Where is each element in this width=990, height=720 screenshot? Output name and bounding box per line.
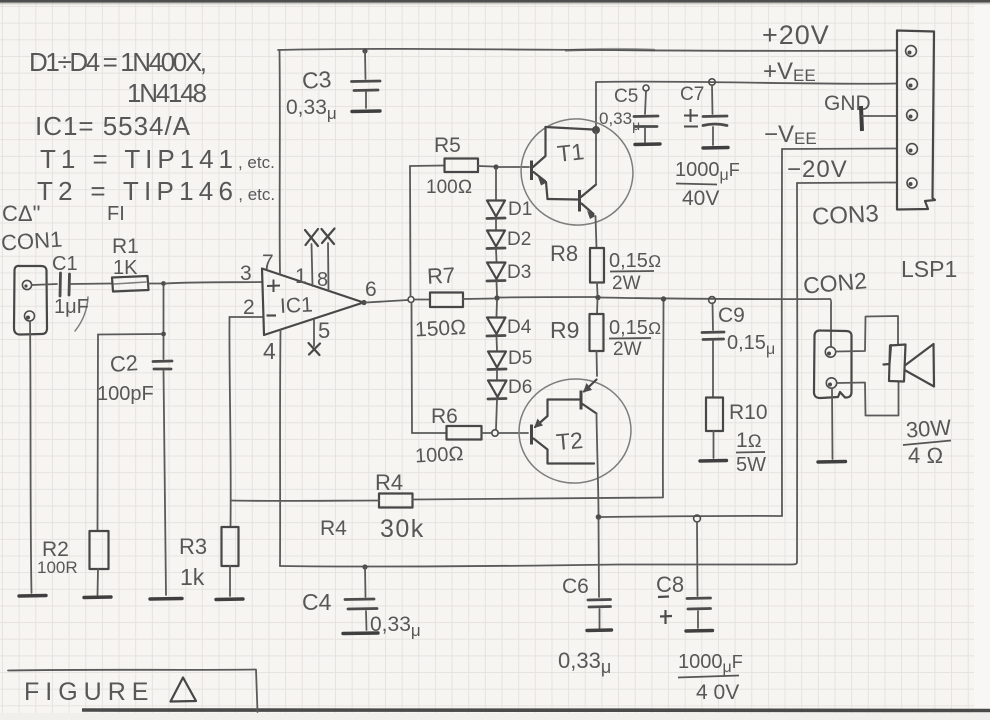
transistor T1 (darlington) circle (514, 112, 640, 233)
capacitor C6 (587, 519, 612, 631)
wire: T1 Q1 collector to node (546, 127, 594, 130)
wire: bias column vertical lower (to R6) (411, 303, 414, 434)
wire: T2 collector vertical (597, 414, 599, 516)
svg-text:1: 1 (295, 265, 307, 288)
capacitor C9 (702, 303, 724, 397)
node: T1 collector node blob (592, 126, 600, 134)
resistor R1 (112, 276, 149, 292)
wire: feedback vertical from output node (662, 301, 665, 498)
wire: CON2 pin1 to speaker top (836, 316, 898, 352)
wire: -20V bottom rail (280, 562, 797, 567)
svg-text:R8: R8 (550, 241, 578, 266)
svg-text:C3: C3 (301, 66, 332, 94)
pin 5 stub with X (309, 320, 321, 355)
diode D6 (488, 381, 507, 430)
svg-text:2: 2 (243, 296, 255, 319)
resistor R3 (222, 527, 239, 596)
svg-text:FIGURE: FIGURE (24, 678, 154, 706)
pin 7 wire to +20V (279, 50, 282, 274)
svg-text:R4: R4 (320, 517, 347, 540)
ground (R10) (700, 459, 727, 463)
wire: +VEE rail (596, 82, 897, 84)
pin 4 wire to -20V rail (279, 330, 282, 566)
svg-text:4 Ω: 4 Ω (908, 443, 943, 468)
resistor R8 (590, 248, 604, 295)
svg-text:30k: 30k (380, 515, 425, 543)
svg-text:T2: T2 (555, 427, 584, 455)
svg-text:C8: C8 (656, 572, 684, 597)
svg-text:100pF: 100pF (97, 383, 154, 405)
wire: T2 collector rail to -VEE (601, 516, 782, 517)
value 0,15ohm / 2W (R8) (609, 250, 661, 294)
svg-text:1Ω: 1Ω (736, 429, 762, 452)
svg-text:2W: 2W (612, 273, 641, 294)
op-amp plus mark (267, 280, 280, 293)
svg-text:C7: C7 (680, 84, 704, 105)
speaker LSP1 (884, 344, 935, 387)
wire: C1 to R1 (70, 283, 112, 286)
wire: +20V top rail (278, 49, 897, 51)
wire: T1 Q1 emitter to Q2 base (548, 198, 578, 201)
pin 8 stub with X (322, 229, 335, 292)
svg-text:IC1: IC1 (279, 293, 313, 318)
wire: bias column vertical upper (to R5) (409, 166, 412, 297)
svg-text:D3: D3 (507, 262, 531, 283)
value 30W / 4ohm (LSP1) (903, 415, 952, 468)
svg-text:1k: 1k (180, 564, 205, 590)
wire: op-amp output to bias column (366, 300, 408, 303)
wire: R1 to node A (148, 283, 162, 285)
svg-text:C1: C1 (52, 253, 78, 275)
svg-text:CON1: CON1 (0, 226, 63, 255)
capacitor C5 (634, 85, 660, 145)
capacitor C2 (153, 336, 172, 595)
diode D2 (487, 231, 505, 262)
svg-text:1μF: 1μF (54, 296, 89, 318)
wire: inverting node vertical (to R3/R4) (229, 317, 230, 527)
svg-text:8: 8 (317, 269, 328, 291)
wire: CON2 pin2 to speaker bottom (837, 382, 899, 416)
wire: C2 node left to R2 branch (98, 333, 161, 336)
resistor R5 (410, 159, 493, 173)
figure box line (8, 670, 258, 713)
wire: mid node to D4 (496, 300, 499, 316)
diode D1 (487, 201, 505, 230)
svg-text:C5: C5 (614, 86, 638, 107)
wire: -20V rail (797, 182, 897, 185)
resistor R10 (706, 398, 723, 459)
wire: diode chain lead (495, 169, 497, 199)
wire: R2 branch vertical (97, 335, 100, 532)
svg-text:IC1= 5534/A: IC1= 5534/A (35, 111, 191, 141)
resistor R9 (590, 299, 604, 376)
capacitor C1 (60, 273, 88, 331)
wire: GND to CON3 (862, 115, 897, 117)
svg-text:CON2: CON2 (802, 267, 868, 298)
node: C8 tap circle (694, 515, 701, 522)
node: C9 tap circle (709, 297, 716, 304)
svg-text:LSP1: LSP1 (901, 256, 957, 282)
svg-text:C9: C9 (718, 304, 745, 327)
svg-text:R3: R3 (179, 534, 207, 559)
svg-text:D1÷D4 = 1N400X,: D1÷D4 = 1N400X, (29, 47, 207, 77)
wire: node A to op-amp pin3 (165, 282, 262, 284)
wire: node to T1 base (498, 166, 529, 168)
svg-text:R1: R1 (112, 235, 139, 258)
ground (CON2) (818, 460, 846, 464)
op-amp U1 triangle (262, 269, 364, 336)
svg-text:GND: GND (824, 92, 871, 115)
capacitor C8 (686, 522, 713, 631)
op-amp minus mark (267, 314, 277, 316)
svg-text:7: 7 (262, 251, 274, 274)
scan edge bottom line (82, 708, 990, 712)
svg-text:R7: R7 (426, 262, 455, 288)
wire: output rail right (600, 298, 830, 300)
svg-text:150Ω: 150Ω (414, 316, 466, 342)
svg-text:100Ω: 100Ω (414, 443, 464, 468)
ground (CON1 pin2) (19, 594, 46, 598)
svg-text:CON3: CON3 (811, 200, 879, 230)
svg-text:C4: C4 (302, 589, 332, 615)
node: diode mid node dot (494, 295, 499, 300)
resistor R6 (412, 426, 492, 440)
wire: +20V rail pencil retrace (565, 49, 655, 50)
svg-text:1N4148: 1N4148 (127, 78, 207, 108)
wire: node A down to C2 node (163, 286, 165, 332)
transistor T1 inner Q2 (580, 185, 597, 220)
connector CON3 (897, 31, 935, 210)
label FIGURE 1 (24, 678, 196, 707)
wire: output rail corner into CON2 (830, 299, 831, 346)
svg-text:C6: C6 (562, 575, 589, 598)
wire: CON2 pin2 to ground (831, 389, 834, 460)
connector CON2 (814, 330, 852, 398)
ground (R2) (84, 595, 111, 599)
transistor T1 inner Q1 (532, 127, 548, 199)
wire: op-amp pin2 stub (230, 316, 263, 318)
polarity mark plus/minus (C7) (684, 109, 698, 127)
capacitor C3 (352, 48, 381, 111)
wire: D6 node to T2 base (498, 432, 528, 434)
wire: CON1 pin2 down (30, 321, 32, 593)
svg-text:5: 5 (318, 318, 330, 343)
node: T2 collector node dot (596, 514, 602, 520)
node: output node dot (R8/R9) (595, 295, 600, 300)
wire: CON1 pin1 to C1 (32, 284, 57, 285)
svg-text:4: 4 (263, 338, 276, 364)
resistor R4 (231, 494, 662, 508)
svg-text:R9: R9 (550, 317, 579, 343)
transistor T2 (darlington) circle (514, 373, 636, 488)
capacitor C7 (703, 79, 728, 148)
value 1ohm / 5W (R10) (736, 429, 766, 476)
node: bias column node circle (408, 297, 414, 303)
diode D3 (487, 263, 506, 296)
diode D5 (488, 352, 506, 380)
scan edge top (0, 0, 990, 3)
wire: T1 Q2 emitter down to R8 (596, 216, 597, 248)
svg-text:D2: D2 (507, 229, 531, 250)
svg-text:5W: 5W (736, 454, 766, 476)
wire: +VEE drop to T1 collector node (595, 82, 597, 128)
ground (C2) (150, 597, 182, 601)
wire: main mid rail (diode node to output node) (500, 296, 597, 299)
svg-text:+20V: +20V (762, 20, 830, 50)
transistor T2 inner Q2 (581, 380, 597, 414)
diode D4 (487, 318, 506, 351)
svg-text:R6: R6 (431, 405, 458, 428)
transistor T2 inner Q1 (532, 400, 595, 464)
svg-text:T1: T1 (556, 138, 585, 167)
svg-text:4 0V: 4 0V (696, 681, 739, 704)
svg-text:D1: D1 (508, 199, 532, 220)
ground (R3) (216, 597, 243, 601)
capacitor C4 (343, 564, 378, 633)
svg-text:−20V: −20V (787, 156, 848, 183)
svg-text:2W: 2W (613, 339, 642, 360)
node: C2 top node dot (161, 332, 166, 337)
svg-text:3: 3 (240, 262, 252, 285)
svg-text:D4: D4 (507, 317, 532, 338)
wire: -VEE vertical drop (781, 149, 783, 516)
svg-text:FI: FI (107, 203, 125, 225)
svg-text:0,15Ω: 0,15Ω (609, 250, 661, 272)
node: output apex dot (361, 300, 366, 305)
svg-text:30W: 30W (905, 415, 952, 443)
svg-text:40V: 40V (682, 187, 719, 210)
connector CON1 (14, 266, 47, 335)
svg-text:1K: 1K (113, 257, 138, 279)
svg-text:100R: 100R (37, 558, 78, 577)
wire: T1 collector vertical (595, 132, 597, 184)
pin 1 stub with X (305, 229, 318, 286)
svg-text:0,15Ω: 0,15Ω (609, 317, 661, 339)
wire: -20V vertical drop (796, 183, 798, 562)
svg-text:C2: C2 (109, 350, 139, 377)
polarity mark minus/plus (C8) (658, 597, 672, 625)
resistor R7 (414, 293, 494, 308)
value 0,15ohm / 2W (R9) (609, 317, 661, 360)
svg-text:CΔ": CΔ" (2, 201, 40, 226)
value 1000uF / 40V (C8) (678, 651, 743, 704)
node: D1 top node dot (493, 164, 498, 169)
svg-text:100Ω: 100Ω (426, 177, 472, 198)
node: feedback tap dot (661, 296, 666, 301)
node: D6 bottom node circle (492, 430, 498, 436)
svg-text:R4: R4 (375, 470, 403, 495)
svg-text:R5: R5 (434, 134, 461, 157)
svg-text:D6: D6 (508, 377, 532, 398)
ground GND stub stroke (861, 106, 862, 131)
svg-text:R10: R10 (729, 401, 768, 424)
resistor R2 (90, 531, 109, 595)
node A: input node dot (161, 281, 166, 286)
svg-text:6: 6 (365, 278, 377, 301)
wire: -VEE rail (782, 148, 897, 151)
svg-text:D5: D5 (508, 348, 532, 369)
